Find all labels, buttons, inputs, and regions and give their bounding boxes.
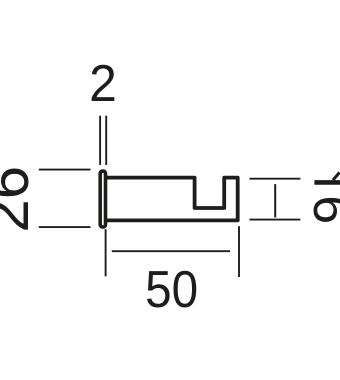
bracket arm profile outline <box>106 178 238 221</box>
svg-text:2: 2 <box>89 55 117 113</box>
digit 1 of label 16 (stem, rotated) <box>314 180 340 185</box>
wall plate (2 mm vertical bar) <box>100 171 105 227</box>
svg-text:6: 6 <box>302 195 340 224</box>
extension line right for dimension 50 <box>238 226 240 277</box>
extension line top for dimension 16 <box>250 178 301 180</box>
dimension label 16 (arm height, rotated) <box>302 173 340 225</box>
extension line right for dimension 2 <box>105 116 107 165</box>
svg-text:50: 50 <box>145 261 198 319</box>
dimension line for 50 (horizontal) <box>112 250 230 252</box>
extension line left for dimension 50 <box>105 229 107 276</box>
extension line bottom for dimension 16 <box>250 219 301 221</box>
extension line left for dimension 2 <box>99 116 101 165</box>
svg-text:26: 26 <box>0 166 41 233</box>
extension line top for dimension 26 <box>39 169 91 171</box>
digit 1 of label 16 (flag, rotated) <box>333 173 340 181</box>
dimension line for 16 (vertical) <box>274 184 276 217</box>
extension line bottom for dimension 26 <box>39 226 91 228</box>
